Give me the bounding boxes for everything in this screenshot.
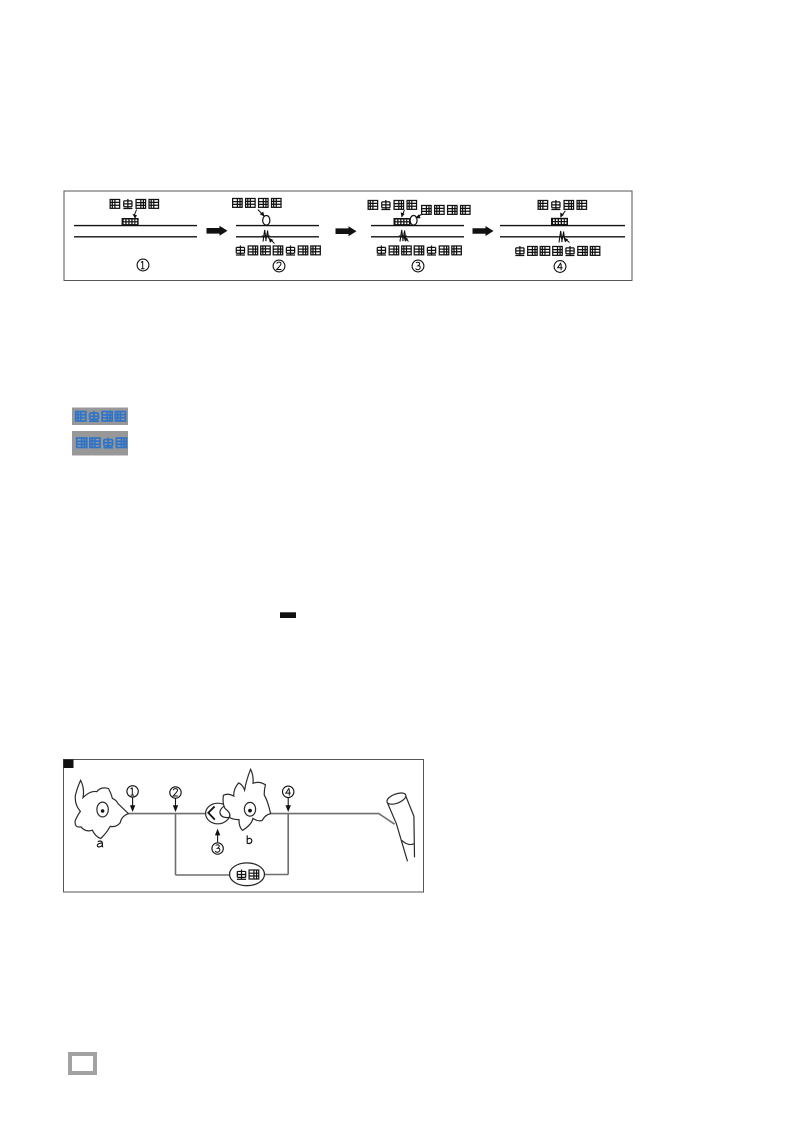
arrow panel2 to panel3	[336, 226, 357, 236]
panel 2 label 鼠眼眨肌电信号	[236, 246, 321, 256]
panel 4 EMG spike	[558, 231, 566, 243]
panel 3 speaker icon	[394, 218, 411, 226]
panel 4 speaker icon	[551, 218, 568, 226]
arrow panel1 to panel2	[207, 226, 228, 236]
panel 1 label 声音信号	[110, 199, 158, 209]
muscle cylinder left edge	[387, 803, 407, 862]
panel 2 pointer to EMG spike	[269, 238, 275, 244]
label a	[97, 841, 103, 847]
panel 3 pointer to speaker	[401, 210, 405, 218]
panel 1 upper line	[74, 225, 197, 227]
panel 3 upper line	[371, 225, 464, 227]
arrow 4 down to wire	[286, 798, 291, 812]
panel 2 EMG spike	[262, 230, 270, 242]
arrow 3 up to synapse	[215, 829, 220, 843]
neuron b cell body	[223, 769, 271, 830]
panel 3 label 声音信号	[368, 200, 416, 210]
answer chip gray background	[72, 408, 128, 426]
panel 4 label 声音信号	[538, 200, 586, 210]
panel 3 pointer to airflow circle	[415, 214, 421, 218]
panel 2 airflow circle	[263, 216, 270, 226]
panel 1 speaker icon	[122, 218, 139, 226]
circled 1 marker	[127, 786, 138, 797]
panel 4 upper line	[500, 225, 625, 227]
wire to meter left	[176, 874, 230, 876]
panel 2 pointer line to airflow circle	[258, 210, 265, 217]
panel 2 upper line	[236, 225, 319, 227]
panel 4 label 鼠眼眨肌电信号	[515, 246, 600, 256]
wire to meter right	[265, 874, 289, 876]
analysis chip gray background	[72, 431, 128, 456]
arrow panel3 to panel4	[473, 226, 494, 236]
panel 1 lower line	[74, 236, 197, 238]
circled 4 marker	[283, 786, 294, 797]
panel 1 circled 1	[137, 259, 149, 271]
muscle cylinder right edge	[406, 796, 415, 857]
panel 2 lower line	[236, 236, 319, 238]
panel 3 pointer to EMG spike	[404, 237, 409, 242]
circled 2 marker	[170, 787, 181, 798]
panel 3 EMG spike	[399, 230, 407, 242]
panel 2 circled 2	[273, 260, 285, 272]
short black dash (blank marker)	[280, 612, 296, 618]
neuron b dendrite hook into synapse	[220, 804, 230, 818]
panel 3 lower line	[371, 236, 464, 238]
panel 3 airflow circle	[410, 216, 417, 226]
diagram2 outer box	[64, 760, 424, 893]
panel 3 label 气流信号	[422, 205, 470, 214]
panel 3 circled 3	[412, 260, 424, 272]
bottom-left small gray box	[68, 1052, 97, 1075]
synaptic knob chevron	[208, 807, 215, 820]
muscle cross arc	[402, 840, 415, 844]
meter label 电表	[237, 870, 259, 880]
neuron a cell body	[75, 780, 128, 838]
panel 2 label 气流信号	[233, 198, 281, 207]
neuron b nucleus	[244, 802, 255, 816]
panel 3 label 鼠眼眨肌电信号	[377, 246, 462, 256]
synapse circle	[206, 803, 230, 824]
vertical wire at position 4	[287, 814, 289, 875]
panel 4 pointer to EMG spike	[564, 237, 570, 242]
neuron a nucleus	[97, 802, 108, 817]
neuron b nucleolus dot	[248, 809, 252, 813]
meter ellipse 电表	[230, 863, 265, 886]
vertical wire at position 2	[175, 814, 177, 875]
arrow 2 down to wire	[173, 799, 178, 813]
panel 4 pointer to speaker	[560, 211, 565, 218]
panel 1 pointer line to speaker	[132, 210, 137, 219]
panel 4 circled 4	[554, 261, 566, 273]
black corner square on diagram2	[64, 760, 74, 769]
diagram1 outer box	[64, 191, 632, 281]
axon wire from neuron b to muscle	[271, 814, 395, 825]
neuron a nucleolus dot	[101, 809, 105, 813]
muscle cylinder top ellipse	[385, 791, 407, 807]
panel 4 lower line	[500, 236, 625, 238]
main axon wire from neuron a to synapse	[128, 813, 205, 815]
circled 3 marker	[212, 843, 223, 854]
label b	[247, 835, 252, 843]
arrow 1 down to wire	[130, 797, 135, 812]
